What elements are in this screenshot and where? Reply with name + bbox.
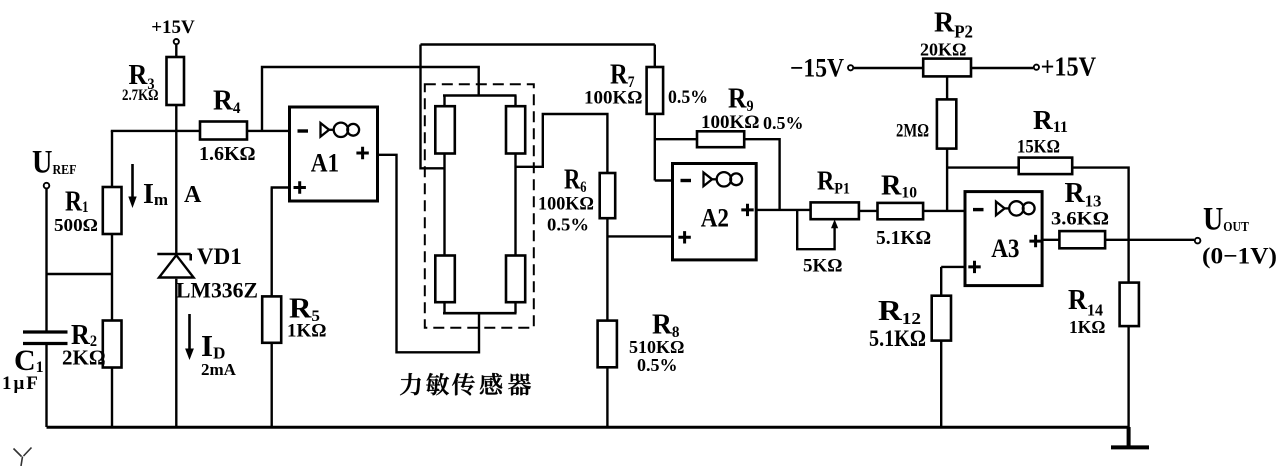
svg-text:+15V: +15V bbox=[1041, 52, 1097, 82]
resistor R10 bbox=[878, 203, 924, 219]
wire R1 bottom to R2 top bbox=[111, 234, 113, 321]
terminal UOUT terminal bbox=[1195, 238, 1201, 244]
svg-text:2.7KΩ: 2.7KΩ bbox=[122, 87, 159, 104]
wire R14 bottom bbox=[1127, 326, 1129, 427]
wire VD1 anode down bbox=[175, 279, 177, 427]
resistor R8 bbox=[598, 321, 617, 368]
svg-text:VD1: VD1 bbox=[197, 244, 242, 269]
ground bbox=[1111, 427, 1149, 447]
wire C1 bottom stem bbox=[45, 345, 47, 427]
svg-text:1KΩ: 1KΩ bbox=[287, 321, 327, 342]
op-amp A1 gain symbol bbox=[321, 123, 360, 137]
bridge resistor lower-left bbox=[435, 256, 455, 303]
RP1 wiper arrow bbox=[831, 219, 838, 228]
resistor R6 bbox=[600, 173, 616, 218]
resistor R7 bbox=[647, 67, 664, 114]
svg-text:A1: A1 bbox=[311, 149, 339, 178]
terminal UREF input bbox=[44, 183, 50, 189]
svg-text:15KΩ: 15KΩ bbox=[1017, 138, 1060, 158]
wire R5 bottom bbox=[271, 343, 273, 427]
wire bridge right arm bbox=[514, 154, 516, 256]
resistor R2 bbox=[103, 321, 122, 368]
wire A2 noninverting input wire bbox=[607, 235, 672, 237]
svg-text:1KΩ: 1KΩ bbox=[1069, 317, 1105, 337]
wire R7 top stem bbox=[654, 45, 656, 68]
wire R7-R9 branch bbox=[655, 138, 697, 140]
wire R9 to A2 output bbox=[744, 139, 779, 210]
svg-text:100KΩ: 100KΩ bbox=[701, 112, 760, 133]
wire A2 inverting input wire bbox=[655, 179, 673, 181]
wire node A to R4 right to A1 bbox=[247, 130, 290, 132]
capacitor C1 bbox=[23, 332, 68, 344]
potentiometer RP2 bbox=[923, 59, 971, 77]
resistor R12 bbox=[932, 296, 951, 341]
op-amp A1 minus input sign bbox=[298, 129, 309, 132]
wire A1 output to bridge bottom bbox=[378, 155, 480, 352]
wire node A horizontal left bbox=[111, 130, 200, 132]
wire bridge bottom-right drop bbox=[514, 302, 516, 313]
wire R6 bottom to junction bbox=[606, 218, 608, 320]
wire bridge top-left drop bbox=[443, 96, 445, 107]
op-amp A1 output + sign bbox=[356, 147, 368, 159]
svg-text:A2: A2 bbox=[701, 204, 729, 233]
label force sensor (Chinese) bbox=[400, 373, 531, 395]
resistor R14 bbox=[1120, 283, 1139, 327]
wire R11 to output node bbox=[1072, 168, 1128, 283]
resistor R11 bbox=[1019, 158, 1072, 175]
svg-text:5.1KΩ: 5.1KΩ bbox=[876, 228, 931, 249]
op-amp A2 minus input sign bbox=[681, 179, 692, 182]
wire A3 + down to R12 bbox=[940, 267, 942, 296]
current ID arrow bbox=[188, 314, 191, 351]
terminal +15V right terminal bbox=[1034, 65, 1039, 70]
wire A1 noninverting input bbox=[271, 186, 290, 188]
op-amp A2 gain symbol bbox=[704, 172, 743, 186]
wire -15V to RP2 bbox=[854, 67, 923, 69]
wire +15V stem bbox=[175, 45, 177, 57]
svg-text:0.5%: 0.5% bbox=[547, 215, 589, 235]
svg-text:0.5%: 0.5% bbox=[763, 113, 804, 133]
stray Y mark bbox=[14, 448, 32, 466]
op-amp A2 noninverting + sign bbox=[678, 231, 690, 243]
svg-text:(0−1V): (0−1V) bbox=[1202, 244, 1277, 269]
resistor R4 bbox=[200, 122, 247, 140]
wire bridge bottom-left drop bbox=[443, 302, 445, 313]
wire UREF to R1 link bbox=[47, 273, 113, 275]
zener diode VD1 bbox=[157, 254, 193, 278]
terminal +15V left bbox=[174, 39, 179, 44]
wire top feedback wire to R7 bbox=[421, 43, 655, 46]
svg-text:2mA: 2mA bbox=[201, 360, 237, 379]
wire bridge left node out bbox=[421, 45, 445, 169]
svg-text:1μF: 1μF bbox=[2, 373, 40, 394]
resistor R5 bbox=[262, 296, 281, 342]
current Im arrow bbox=[131, 164, 134, 199]
svg-text:A3: A3 bbox=[991, 234, 1019, 263]
wire A1 + node down to R5 bbox=[271, 188, 273, 297]
op-amp A2 output + sign bbox=[741, 204, 753, 216]
wire A3 output to R13 bbox=[1042, 239, 1059, 241]
wire R1 top bbox=[111, 131, 113, 187]
op-amp A3 gain symbol bbox=[996, 201, 1035, 215]
wire R13 to UOUT bbox=[1105, 239, 1194, 241]
wire A1 inverting feedback bbox=[262, 67, 479, 131]
wire node to R11 bbox=[947, 166, 1019, 168]
wire R3 bottom to VD1 cathode bbox=[175, 105, 177, 253]
resistor R3 bbox=[167, 57, 185, 105]
op-amp A3 noninverting + sign bbox=[968, 261, 980, 273]
svg-text:5KΩ: 5KΩ bbox=[803, 256, 843, 277]
wire R12 bottom bbox=[940, 341, 942, 427]
resistor R13 bbox=[1059, 231, 1105, 248]
resistor 2M bbox=[937, 99, 956, 148]
wire bridge left arm bbox=[443, 154, 445, 256]
op-amp A2 bbox=[673, 164, 757, 260]
wire ground rail bbox=[47, 426, 1129, 429]
op-amp A1 bbox=[290, 107, 378, 201]
svg-text:1.6KΩ: 1.6KΩ bbox=[199, 143, 256, 165]
wire bridge bottom bar bbox=[443, 312, 517, 315]
wire R7 bottom to A2 inverting bbox=[654, 114, 656, 181]
svg-text:100KΩ: 100KΩ bbox=[538, 194, 594, 215]
svg-text:5.1KΩ: 5.1KΩ bbox=[869, 326, 926, 351]
bridge resistor upper-right bbox=[506, 106, 525, 153]
wire R2 bottom bbox=[111, 368, 113, 428]
potentiometer RP1 bbox=[811, 202, 859, 219]
force sensor dashed box bbox=[425, 84, 534, 327]
svg-text:−15V: −15V bbox=[790, 54, 844, 83]
bridge resistor upper-left bbox=[435, 106, 455, 153]
wire UREF stem down to C1 bbox=[45, 189, 47, 331]
svg-text:+15V: +15V bbox=[151, 17, 195, 38]
svg-text:510KΩ: 510KΩ bbox=[629, 337, 684, 357]
op-amp A3 minus input sign bbox=[973, 208, 984, 211]
op-amp A3 output + sign bbox=[1029, 235, 1041, 247]
svg-text:0.5%: 0.5% bbox=[668, 87, 708, 108]
bridge resistor lower-right bbox=[506, 256, 525, 303]
terminal -15V terminal bbox=[848, 65, 853, 70]
wire A2 output wire bbox=[756, 209, 810, 211]
op-amp A1 noninverting + sign bbox=[294, 181, 306, 193]
svg-text:A: A bbox=[184, 182, 202, 208]
svg-text:2MΩ: 2MΩ bbox=[896, 121, 929, 142]
svg-text:LM336Z: LM336Z bbox=[176, 278, 258, 303]
wire bridge top bar bbox=[443, 94, 517, 97]
svg-text:100KΩ: 100KΩ bbox=[584, 88, 643, 109]
resistor R9 bbox=[697, 131, 744, 147]
wire 2M bottom to A3 node bbox=[946, 149, 948, 211]
wire bridge right node out bbox=[516, 114, 608, 173]
wire RP2 to +15V bbox=[971, 67, 1033, 69]
svg-text:20KΩ: 20KΩ bbox=[920, 40, 966, 60]
wire A3 noninverting input bbox=[941, 266, 965, 268]
wire R8 bottom bbox=[606, 367, 608, 427]
svg-text:0.5%: 0.5% bbox=[637, 355, 678, 375]
svg-text:2KΩ: 2KΩ bbox=[62, 346, 106, 370]
svg-text:500Ω: 500Ω bbox=[54, 215, 98, 235]
svg-text:3.6KΩ: 3.6KΩ bbox=[1051, 209, 1109, 230]
op-amp A3 bbox=[965, 192, 1042, 286]
resistor R1 bbox=[103, 187, 122, 234]
wire RP2 wiper stem bbox=[946, 76, 948, 99]
wire bridge top-right drop bbox=[514, 96, 516, 107]
wire RP1 to R10 bbox=[859, 210, 878, 212]
wire R10 to A3 inverting bbox=[923, 210, 965, 212]
wire RP1 wiper loop bbox=[797, 210, 834, 249]
